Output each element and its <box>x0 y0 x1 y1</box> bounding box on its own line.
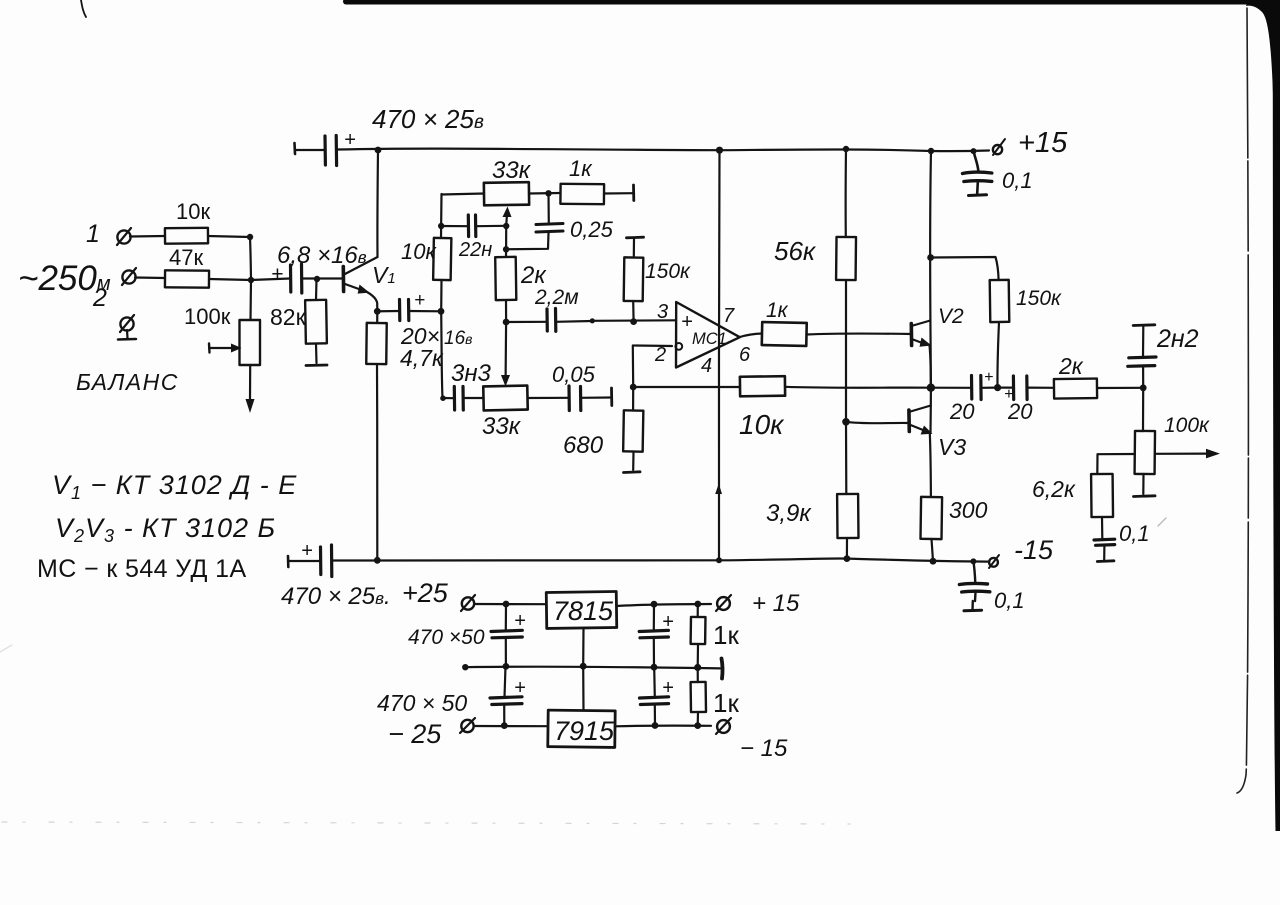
node rail / 1к pair <box>694 664 701 671</box>
capacitor 0,1 (+15 bypass) <box>974 152 979 171</box>
svg-text:20: 20 <box>949 399 975 424</box>
svg-text:МС1: МС1 <box>692 330 727 348</box>
svg-text:+: + <box>514 610 526 632</box>
scan edge: top black strip <box>346 0 1280 5</box>
svg-text:+: + <box>662 677 674 699</box>
capacitor 20x16В (emitter to fb node) <box>377 310 399 312</box>
capacitor 470x25В (bottom rail) <box>287 556 290 567</box>
svg-text:6: 6 <box>739 344 751 366</box>
svg-text:33к: 33к <box>482 413 522 440</box>
node: rail / 56к <box>843 146 849 152</box>
resistor 2к (below wiper) <box>505 249 507 257</box>
wire end T-bar (0,05 open) <box>610 388 613 406</box>
node: rail / V1 collector riser <box>375 147 382 154</box>
node between 20 caps / 150к <box>994 384 1001 391</box>
faint dotted line lower <box>2 822 850 824</box>
wire 33к to 1к <box>529 192 560 195</box>
wire node to 82к <box>315 279 318 300</box>
svg-text:150к: 150к <box>1016 287 1062 310</box>
capacitor 22н <box>441 225 468 227</box>
wire V3 collector to output node <box>929 388 932 433</box>
terminal -15 (circle with slash) <box>989 558 998 567</box>
capacitor 0,05 <box>567 386 570 411</box>
svg-text:+: + <box>344 129 356 151</box>
wire 47к to node <box>209 279 251 280</box>
node: rail / 300 <box>930 558 937 565</box>
resistor 2к (output) <box>1054 379 1097 399</box>
wire 680 node to 10к fb <box>633 386 740 388</box>
wire V3 base <box>846 422 909 423</box>
svg-text:+15: +15 <box>1018 127 1068 159</box>
node out / cap bottom <box>652 722 659 729</box>
svg-text:56к: 56к <box>774 236 817 266</box>
svg-text:7815: 7815 <box>553 596 614 626</box>
wire node to V1 base <box>317 277 343 279</box>
svg-text:47к: 47к <box>169 245 203 270</box>
potentiometer 33к (lower) body <box>483 386 527 411</box>
svg-text:1к: 1к <box>766 299 789 322</box>
capacitor 2,2м <box>506 321 546 323</box>
terminal +25 (circle with slash) <box>462 597 474 609</box>
svg-text:МС − к 544 УД 1А: МС − к 544 УД 1А <box>37 555 247 583</box>
svg-text:10к: 10к <box>739 409 785 440</box>
wire 56к bottom to V3 base node <box>845 280 847 422</box>
capacitor 0,1 below 6,2к <box>1101 517 1104 538</box>
wire branch to 150к right top <box>931 257 999 280</box>
svg-text:-15: -15 <box>1014 535 1054 565</box>
node: rail / 0,1 bypass <box>971 148 977 154</box>
svg-text:БАЛАНС: БАЛАНС <box>76 369 179 395</box>
node -25 / 470x50 bottom <box>501 722 508 729</box>
node V1 emitter <box>374 308 381 315</box>
svg-text:1к: 1к <box>569 156 593 181</box>
wire to op-amp pin 3 <box>592 319 676 322</box>
wire 7915 gnd <box>582 666 584 710</box>
resistor 6,2к <box>1091 474 1113 517</box>
resistor 10к (input 1) <box>165 228 208 244</box>
svg-text:2к: 2к <box>520 262 547 289</box>
resistor 1к (output to V2 base) <box>762 322 807 346</box>
svg-text:82к: 82к <box>270 304 307 330</box>
svg-text:470 × 25в.: 470 × 25в. <box>281 583 391 610</box>
capacitor 470x50 (input top) <box>505 604 507 630</box>
wire 150к bottom to output node <box>997 322 999 388</box>
wire corner to 33к pot left top <box>442 194 485 195</box>
svg-text:− 25: − 25 <box>388 719 442 749</box>
node out / 1к <box>694 601 701 608</box>
terminal +15 (circle with slash) <box>993 145 1002 154</box>
svg-text:470 ×50: 470 ×50 <box>408 626 485 649</box>
node: rail / 4,7к line <box>374 557 381 564</box>
wire 10к to node <box>441 280 442 398</box>
svg-text:3н3: 3н3 <box>451 360 492 387</box>
wire 10к to node <box>208 236 250 237</box>
wire 4,7к to bottom rail <box>376 364 379 560</box>
wire: +15 top rail <box>338 149 990 152</box>
capacitor 2н2 to T-bar <box>1142 367 1144 388</box>
svg-text:470 × 50: 470 × 50 <box>377 690 467 716</box>
capacitor 20 (first) <box>970 376 973 400</box>
svg-text:10к: 10к <box>176 199 210 224</box>
svg-text:V2: V2 <box>938 305 964 328</box>
svg-text:20: 20 <box>1007 399 1033 424</box>
node rail / regulators gnd <box>580 663 587 670</box>
terminal -15 ps (circle with slash) <box>717 720 730 733</box>
resistor 1к (fb top) <box>560 184 604 204</box>
node 56к-3,9к / V3 base <box>842 418 850 426</box>
node input summing bottom <box>248 277 254 283</box>
resistor 1к (bleeder bottom) <box>697 668 699 683</box>
small up arrow on supply vertical <box>715 484 722 495</box>
node output right <box>1140 384 1147 391</box>
wire 2к to 2,2м node <box>505 300 507 322</box>
wire V3 emitter down to 300 <box>930 433 931 497</box>
page border line right <box>1237 8 1248 793</box>
svg-text:1: 1 <box>86 220 100 248</box>
V3 collector stroke <box>911 406 931 412</box>
wire 10к fb to output node <box>785 386 931 389</box>
svg-text:0,1: 0,1 <box>994 588 1025 613</box>
svg-text:V2V3 - КТ 3102 Б: V2V3 - КТ 3102 Б <box>55 513 276 546</box>
svg-text:+25: +25 <box>402 578 449 608</box>
resistor 300 <box>921 497 943 539</box>
33к lower wiper arrow down from 2,2м node <box>505 322 508 378</box>
svg-text:22н: 22н <box>458 239 492 261</box>
resistor 10к (fb vertical) <box>433 238 451 280</box>
wire 1к to open T terminal <box>604 192 633 195</box>
svg-text:3: 3 <box>657 301 668 323</box>
svg-text:4: 4 <box>701 355 712 377</box>
node pin2 / 680 <box>630 384 637 391</box>
svg-text:V3: V3 <box>938 434 966 460</box>
op-amp inverting input bubble <box>675 343 682 350</box>
svg-text:V1 − КТ 3102 Д - Е: V1 − КТ 3102 Д - Е <box>52 470 297 503</box>
faint pencil slash near 0,1 <box>1158 518 1166 526</box>
scan edge: top-right black corner blob <box>1246 0 1280 120</box>
wire 300 to bottom rail <box>932 539 934 561</box>
wire wiper down to 0,25 branch node <box>505 226 507 249</box>
svg-text:33к: 33к <box>492 157 532 184</box>
resistor 150к (non-inv to T) riser <box>632 301 635 322</box>
resistor 680 <box>632 387 634 411</box>
resistor 47к (input 2) <box>165 270 209 287</box>
wire 7815 gnd <box>582 628 584 666</box>
svg-text:100к: 100к <box>1164 414 1210 437</box>
middle rail end tick <box>720 659 725 679</box>
transistor V1 base bar <box>341 267 345 292</box>
resistor 150к (V2 load) <box>990 280 1010 322</box>
node 2к / 2,2м <box>503 319 510 326</box>
wire corner to 3н3 <box>443 397 455 399</box>
svg-text:7: 7 <box>723 305 735 327</box>
wire 3,9к to bottom rail <box>846 538 848 559</box>
potentiometer 100к (balance) body <box>240 320 261 365</box>
node: rail / V2 collector line <box>928 148 934 154</box>
wire 33к to 0,05 <box>528 397 569 399</box>
svg-text:300: 300 <box>949 497 988 523</box>
node: rail / 0,1 <box>970 558 976 564</box>
svg-text:+: + <box>984 369 993 386</box>
resistor 82к <box>305 300 327 344</box>
capacitor (output bottom, after 7915) <box>654 704 656 726</box>
svg-text:+: + <box>301 540 313 562</box>
wire 680 node up and right to op-amp pin 2 <box>633 346 672 388</box>
V1 emitter stroke with arrow <box>345 284 363 291</box>
wire 100к left side down to 6,2к <box>1097 454 1135 474</box>
svg-text:0,25: 0,25 <box>570 217 614 242</box>
node rail / caps input <box>503 663 510 670</box>
node output (V2 emitter / V3 collector / 10к fb) <box>927 384 935 392</box>
svg-text:+: + <box>514 677 526 699</box>
top-left pen hook <box>81 0 86 17</box>
resistor 56к <box>845 149 848 237</box>
wire V2 collector up to rail <box>929 151 932 388</box>
node base V1 / 82к <box>314 276 320 282</box>
svg-text:10к: 10к <box>401 239 437 264</box>
V3 emitter stroke with arrow into bar <box>911 425 929 432</box>
node +25 / 470x50 top <box>503 601 510 608</box>
wire terminal1 to 10к <box>130 235 165 238</box>
svg-text:V1: V1 <box>372 262 396 288</box>
svg-text:470 × 25в: 470 × 25в <box>372 104 484 134</box>
wire 1к to V2 base <box>807 334 912 335</box>
wire +25 to 7815 <box>474 603 546 605</box>
node fb vertical / 22н <box>438 223 444 229</box>
svg-text:+: + <box>662 611 674 633</box>
wire 7915 out to -15 terminal <box>615 724 711 727</box>
svg-text:1к: 1к <box>713 620 739 650</box>
33к wiper arrow up <box>503 207 512 218</box>
ground stub below terminal <box>126 330 129 338</box>
node corner blob <box>440 395 446 401</box>
node V2 collector line / 150к branch <box>927 254 934 261</box>
wire 150к top to T-bar <box>633 239 635 258</box>
svg-text:150к: 150к <box>645 260 691 283</box>
svg-text:2: 2 <box>654 344 666 366</box>
regulator 7915 box <box>548 710 615 747</box>
wire V1 collector riser to +15 rail <box>376 150 379 257</box>
resistor 3,9к <box>845 422 847 494</box>
svg-text:+: + <box>414 290 425 311</box>
V2 emitter stroke with arrow <box>913 340 925 345</box>
transistor V3 base bar <box>907 410 911 432</box>
scan edge: right black bar <box>1273 0 1280 831</box>
ground below 100к <box>1142 474 1144 494</box>
svg-text:0,1: 0,1 <box>1119 521 1150 546</box>
capacitor 6,8x16В coupling <box>251 279 290 281</box>
wire pot bottom with down arrow <box>249 365 251 401</box>
ground below 82к <box>315 344 318 363</box>
capacitor 470x25В (top rail) <box>293 143 296 154</box>
svg-text:− 15: − 15 <box>740 735 788 762</box>
svg-text:0,05: 0,05 <box>552 362 596 387</box>
svg-text:4,7к: 4,7к <box>400 345 444 371</box>
terminal +15 ps (circle with slash) <box>717 597 730 610</box>
svg-text:+ 15: + 15 <box>752 590 800 617</box>
terminal -25 (circle with slash) <box>461 720 473 732</box>
svg-text:+: + <box>681 311 693 333</box>
V1 collector stroke <box>344 257 378 275</box>
svg-text:100к: 100к <box>184 304 231 329</box>
terminal ground input (circle with slash) <box>120 317 133 330</box>
potentiometer wiper arm with arrow <box>208 344 211 353</box>
svg-text:2н2: 2н2 <box>1156 325 1199 353</box>
svg-text:2к: 2к <box>1058 353 1084 379</box>
capacitor 0,1 (-15 bypass) <box>973 561 975 583</box>
capacitor 470x50 (input bottom) <box>503 704 505 726</box>
wire output node to 20 cap <box>931 387 971 389</box>
100к wiper output arrow right <box>1155 453 1208 455</box>
svg-text:7915: 7915 <box>554 716 615 746</box>
op-amp MC1 triangle <box>676 302 740 368</box>
svg-text:2,2м: 2,2м <box>534 286 579 309</box>
node input summing top <box>247 234 253 240</box>
resistor 10к (feedback) <box>740 376 785 396</box>
ground below 680 <box>632 452 634 471</box>
wire 2к to output node right <box>1097 387 1143 389</box>
terminal input 1 (circle with slash) <box>117 230 130 243</box>
svg-text:3,9к: 3,9к <box>766 500 812 527</box>
regulator 7815 box <box>546 592 616 629</box>
wire branch to 0,25 cap <box>506 233 548 249</box>
potentiometer 100к (output level) <box>1142 388 1144 431</box>
node fb vertical / 20x16В cap <box>438 308 445 315</box>
wire -25 to 7915 <box>474 725 548 727</box>
node: rail / 3,9к <box>844 555 851 562</box>
capacitor 3н3 <box>453 387 457 411</box>
wire op-amp supply vertical (pins 7/4) <box>718 150 721 560</box>
capacitor 0,25 (horizontal plates) <box>536 231 563 232</box>
potentiometer 33к (upper) body <box>484 182 529 205</box>
node: rail / op-amp supply <box>716 557 722 563</box>
node small on pin3 wire <box>590 318 595 323</box>
node rail left end <box>462 664 468 670</box>
svg-text:680: 680 <box>563 432 604 459</box>
wire: -15 bottom rail <box>332 558 988 561</box>
node pin3 wire / 150к <box>630 318 637 325</box>
faint smudge left edge <box>0 645 12 652</box>
svg-text:2: 2 <box>92 284 107 312</box>
wire 7815 out to +15 terminal <box>617 604 712 606</box>
terminal input 2 (circle with slash) <box>122 270 135 283</box>
transistor V2 base bar <box>909 324 913 346</box>
capacitor (output top, after 7815) <box>653 604 655 630</box>
svg-text:6,2к: 6,2к <box>1032 476 1076 502</box>
wire vertical node1-node2-pot <box>250 237 251 320</box>
node rail / caps output <box>651 664 658 671</box>
node 0,25 branch <box>503 246 509 252</box>
svg-text:0,1: 0,1 <box>1002 168 1033 193</box>
resistor 1к (bleeder top) <box>697 604 699 617</box>
node 33к-1к / 0,25 <box>545 190 551 196</box>
node out / cap <box>651 601 658 608</box>
V2 collector stroke <box>913 321 930 326</box>
node out / 1к bottom <box>694 722 701 729</box>
svg-text:6,8 ×16в: 6,8 ×16в <box>277 242 367 269</box>
capacitor 20 (second) <box>998 387 1013 389</box>
node: rail / op-amp supply line <box>716 147 723 154</box>
wire fb vertical upper <box>440 194 443 238</box>
wire terminal2 to 47к <box>135 276 165 279</box>
wire op-amp output to 1к <box>740 334 762 338</box>
wire middle rail 0V <box>465 667 720 669</box>
svg-text:1к: 1к <box>713 688 739 718</box>
resistor 4,7к (V1 emitter) <box>376 311 378 323</box>
node wiper / 22н <box>503 223 509 229</box>
